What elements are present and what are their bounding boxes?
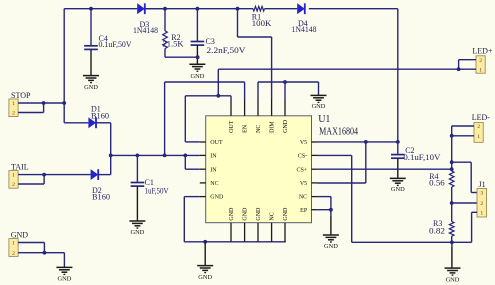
svg-text:GND: GND [243,207,249,221]
wire V5 pin2 riser [317,142,365,183]
top supply wire (left segment to D3 anode) [64,8,137,10]
wire J1 pin2 [452,202,477,204]
svg-text:1: 1 [12,101,15,107]
svg-text:3: 3 [480,191,483,197]
diode D3 1N4148 [133,3,165,35]
capacitor C2 0.1uF [391,146,441,178]
wire IN net [111,154,200,156]
svg-text:GND: GND [283,119,289,133]
resistor R4 0.56 [429,171,454,222]
svg-text:LED-: LED- [472,113,491,122]
svg-text:B160: B160 [91,111,109,120]
diode D2 B160 [91,169,110,201]
ground bottom right [445,268,461,283]
wire bottom ground bus [184,241,285,243]
wire STOP rail riser [64,9,88,123]
resistor R2 21.5K [163,9,198,58]
junction STOP pins [42,101,46,105]
wire TAIL pin1 [18,174,91,176]
wire LED- pin2 [452,126,474,136]
svg-text:GND: GND [283,207,289,221]
resistor R1 100K [252,6,272,27]
wire EN net [165,82,245,155]
svg-text:NC: NC [256,125,262,133]
svg-text:STOP: STOP [11,91,31,100]
wire LED+ pin2 [459,60,476,69]
svg-text:2: 2 [12,251,15,257]
svg-text:NC: NC [210,181,218,187]
svg-text:GND: GND [391,186,405,193]
junction CS+ at R4 [450,167,454,171]
resistor R3 0.82 [429,219,454,242]
wire EP pin to ground [317,210,331,235]
connector TAIL [9,162,29,188]
svg-text:0.1uF,10V: 0.1uF,10V [403,153,440,162]
connector J1 [477,180,487,217]
junction STOP to top rail [62,101,66,105]
svg-text:1: 1 [479,67,482,73]
svg-text:CS-: CS- [298,154,307,160]
ground top-right of U1 [311,95,327,110]
ground below C2 [390,178,406,193]
svg-text:B160: B160 [92,193,110,202]
junction at DIM branch [236,7,240,11]
ground below EP [323,235,339,250]
svg-text:NC: NC [299,195,307,201]
wire GND left pin [184,197,200,242]
connector GND [9,230,28,256]
svg-text:OUT: OUT [229,120,235,133]
svg-text:V5: V5 [300,140,307,146]
svg-text:CS+: CS+ [296,167,307,173]
ground below C1 [129,221,145,236]
wire GND pin2 to ground [18,253,64,268]
junction at C3 [196,7,200,11]
junction LED+ pins [457,67,461,71]
svg-text:GND: GND [324,243,338,250]
wire CS- to ground sense [317,155,471,242]
svg-text:2.2nF,50V: 2.2nF,50V [207,46,246,55]
wire R3 to ground symbol [451,242,453,268]
junction V5 riser [364,140,368,144]
U1 pin stubs and names [200,99,318,242]
wire to J1 pin3 [452,162,477,192]
svg-text:J1: J1 [479,180,486,189]
junction IN net at diodes [109,154,113,158]
U1 reference label [318,114,330,125]
wire down to V5/C2 node [397,9,399,155]
svg-text:IN: IN [210,167,217,173]
ground below GND connector [56,267,72,282]
wire OUT top-pin loop [185,96,231,142]
wire D1 cathode [96,123,111,156]
svg-text:1: 1 [477,134,480,140]
svg-text:U1: U1 [318,114,330,125]
junction R4/R3 at J1 pin2 [450,201,454,205]
svg-text:100K: 100K [252,19,272,28]
svg-text:EN: EN [243,124,249,133]
connector LED- [472,113,491,142]
wire CS+ sense [317,168,451,170]
svg-text:NC: NC [270,212,276,220]
svg-text:0.82: 0.82 [429,226,445,235]
svg-text:C3: C3 [206,37,215,46]
svg-text:TAIL: TAIL [11,162,29,171]
junction R3 bottom ground [450,240,454,244]
svg-text:IN: IN [210,154,217,160]
junction at R2 [163,7,167,11]
wire LED- pin1 down to R4 [452,136,474,171]
svg-text:1uF,50V: 1uF,50V [145,186,169,195]
svg-text:GND: GND [190,73,204,80]
IC U1 MAX16804 body [206,116,312,223]
svg-text:MAX16804: MAX16804 [319,127,358,138]
svg-text:OUT: OUT [210,140,223,146]
svg-text:GND: GND [130,229,144,236]
wire to bottom ground [204,242,206,266]
svg-text:2: 2 [12,111,15,117]
ground below U1 [197,266,213,281]
wire STOP pin1 [18,102,64,104]
svg-text:21.5K: 21.5K [163,39,184,48]
wire NC/GND top net [258,82,319,99]
junction OUT net [216,94,220,98]
svg-text:GND: GND [256,207,262,221]
junction EP node [329,208,333,212]
wire GND top pin [284,82,286,99]
svg-text:GND: GND [210,195,224,201]
svg-text:2: 2 [480,201,483,207]
wire D2 cathode [98,155,111,174]
wire GND pin1 [18,243,44,253]
svg-text:DIM: DIM [270,121,276,133]
wire LED+ pin1 to OUT net [218,69,476,96]
wire J1 pin1 to ground net [472,212,477,242]
top supply wire (D3 cathode to R1) [145,8,253,10]
junction TAIL pins [42,173,46,177]
junction J1 pin3 branch [450,160,454,164]
top wire D4 cathode to right corner [309,8,398,10]
svg-text:1N4148: 1N4148 [133,26,158,35]
wire junction at C4 [89,7,93,11]
wire from top rail to DIM pin [238,9,272,99]
svg-text:GND: GND [57,276,71,283]
junction EN riser [163,154,167,158]
svg-text:GND: GND [312,103,326,110]
capacitor C4 [84,9,132,76]
svg-text:LED+: LED+ [472,46,493,55]
junction GND pins [43,251,47,255]
connector STOP [9,91,31,117]
junction C2 node [396,140,400,144]
capacitor C1 1uF [131,155,169,220]
ground below C4 [83,76,99,91]
svg-text:V5: V5 [300,181,307,187]
junction IN2 jog [183,154,187,158]
wire NC right pin [317,197,331,210]
connector LED+ [472,46,493,73]
svg-text:0.56: 0.56 [429,179,445,188]
junction C1 [136,154,140,158]
svg-text:0.1uF,50V: 0.1uF,50V [99,40,132,49]
junction GND top pin [283,80,287,84]
svg-text:GND: GND [446,276,460,283]
diode D1 B160 [88,105,109,129]
svg-text:GND: GND [198,274,212,281]
svg-text:1: 1 [12,241,15,247]
svg-text:EP: EP [300,208,308,214]
wire IN pin2 jog [185,155,200,169]
wire STOP pin2 [18,103,43,113]
U1 value label MAX16804 [319,127,358,138]
wire V5 pin to C2 [317,141,397,143]
wire TAIL pin2 [18,175,44,184]
svg-text:2: 2 [12,182,15,188]
svg-text:2: 2 [477,124,480,130]
svg-text:GND: GND [229,207,235,221]
svg-text:GND: GND [84,84,98,91]
junction ground bus [203,240,207,244]
svg-text:1: 1 [480,210,483,216]
svg-text:1N4148: 1N4148 [292,25,317,34]
svg-text:2: 2 [479,58,482,64]
ground below C3 [189,64,205,80]
svg-text:1: 1 [12,173,15,179]
diode D4 1N4148 [292,3,317,34]
svg-text:GND: GND [11,230,29,239]
wire R1 to D4 [265,8,298,10]
junction LED- pins [450,134,454,138]
capacitor C3 2.2nF [191,9,246,64]
